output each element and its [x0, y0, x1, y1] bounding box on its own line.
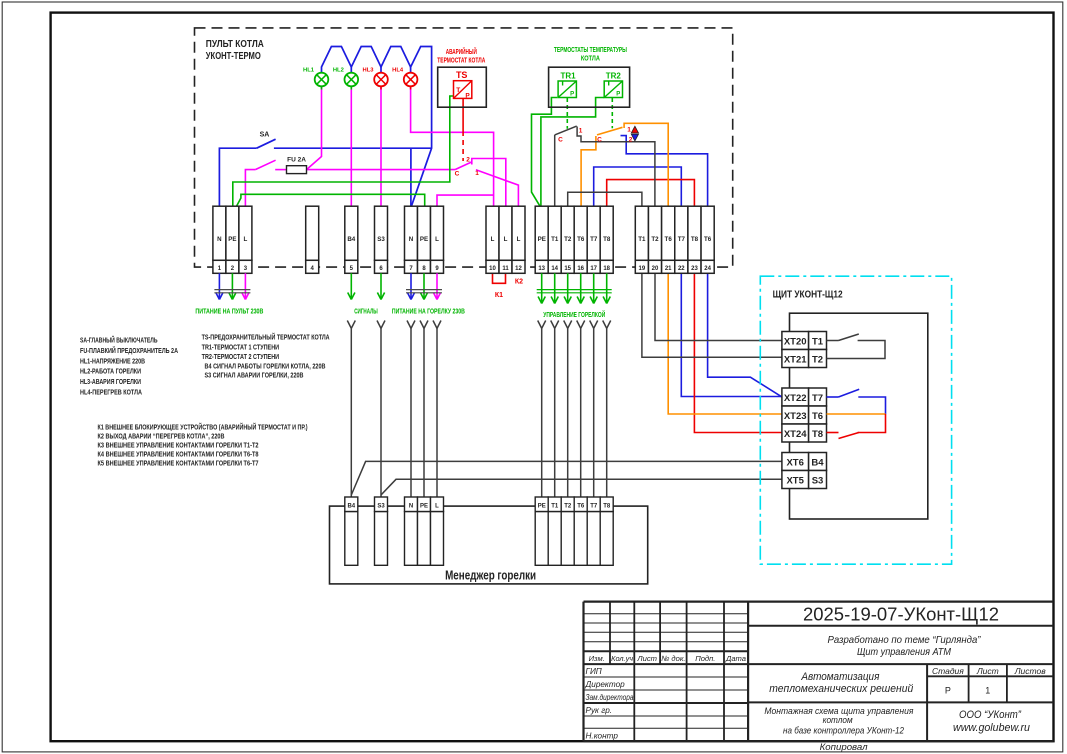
svg-text:21: 21: [665, 266, 672, 272]
svg-text:№ док.: № док.: [661, 654, 685, 663]
svg-text:Разработано по теме “Гирлянда”: Разработано по теме “Гирлянда”: [828, 634, 981, 646]
svg-text:ООО “УКонт”: ООО “УКонт”: [959, 709, 1022, 721]
svg-text:P: P: [616, 92, 620, 98]
svg-text:N: N: [409, 504, 413, 510]
svg-text:24: 24: [704, 266, 711, 272]
svg-text:котлом: котлом: [823, 715, 853, 725]
svg-text:на базе контроллера УКонт-12: на базе контроллера УКонт-12: [783, 726, 904, 736]
svg-text:20: 20: [652, 266, 659, 272]
svg-text:1: 1: [475, 170, 479, 177]
svg-text:PE: PE: [538, 236, 546, 243]
svg-text:T6: T6: [665, 236, 673, 243]
svg-text:T2: T2: [564, 236, 572, 243]
svg-text:B4: B4: [347, 504, 355, 510]
svg-text:FU-ПЛАВКИЙ ПРЕДОХРАНИТЕЛЬ 2А: FU-ПЛАВКИЙ ПРЕДОХРАНИТЕЛЬ 2А: [80, 346, 178, 355]
svg-text:T2: T2: [564, 504, 572, 510]
svg-text:Директор: Директор: [585, 680, 626, 689]
svg-text:P: P: [465, 92, 470, 99]
svg-text:2025-19-07-УКонт-Щ12: 2025-19-07-УКонт-Щ12: [803, 604, 999, 625]
svg-text:T: T: [456, 87, 460, 94]
svg-text:14: 14: [551, 266, 558, 272]
svg-text:S3: S3: [377, 504, 385, 510]
svg-text:www.golubew.ru: www.golubew.ru: [953, 722, 1030, 734]
svg-text:PE: PE: [420, 236, 428, 243]
svg-text:C: C: [597, 137, 602, 144]
svg-text:P: P: [570, 92, 574, 98]
svg-text:Стадия: Стадия: [932, 666, 964, 676]
svg-text:Лист: Лист: [976, 666, 999, 676]
svg-text:Листов: Листов: [1014, 666, 1047, 676]
svg-text:T7: T7: [590, 236, 598, 243]
svg-text:HL3: HL3: [363, 68, 375, 74]
svg-text:10: 10: [489, 266, 496, 272]
svg-text:1: 1: [627, 127, 631, 134]
svg-text:Автоматизация: Автоматизация: [800, 671, 879, 683]
svg-text:К2: К2: [515, 279, 523, 286]
svg-text:T8: T8: [812, 429, 823, 440]
svg-text:Зам.директора: Зам.директора: [586, 693, 634, 702]
svg-text:L: L: [491, 236, 495, 243]
svg-text:T1: T1: [812, 337, 824, 348]
svg-text:ПУЛЬТ КОТЛА: ПУЛЬТ КОТЛА: [206, 38, 264, 50]
svg-text:К3 ВНЕШНЕЕ УПРАВЛЕНИЕ КОНТАКТА: К3 ВНЕШНЕЕ УПРАВЛЕНИЕ КОНТАКТАМИ ГОРЕЛКИ…: [98, 440, 259, 449]
svg-text:1: 1: [579, 128, 583, 135]
svg-text:HL1: HL1: [303, 68, 315, 74]
svg-text:22: 22: [678, 266, 685, 272]
svg-text:Р: Р: [945, 686, 951, 696]
svg-text:Менеджер горелки: Менеджер горелки: [445, 569, 536, 583]
svg-text:SA: SA: [260, 132, 270, 139]
svg-text:B4 СИГНАЛ РАБОТЫ ГОРЕЛКИ КОТЛА: B4 СИГНАЛ РАБОТЫ ГОРЕЛКИ КОТЛА, 220В: [205, 362, 326, 371]
svg-text:TS-ПРЕДОХРАНИТЕЛЬНЫЙ ТЕРМОСТАТ: TS-ПРЕДОХРАНИТЕЛЬНЫЙ ТЕРМОСТАТ КОТЛА: [202, 333, 330, 342]
svg-text:N: N: [217, 236, 222, 243]
svg-text:Лист: Лист: [636, 654, 657, 663]
svg-text:23: 23: [691, 266, 698, 272]
svg-text:FU 2А: FU 2А: [287, 157, 306, 164]
svg-text:T7: T7: [678, 236, 686, 243]
svg-text:XT20: XT20: [784, 337, 807, 348]
svg-text:S3 СИГНАЛ АВАРИИ ГОРЕЛКИ, 220В: S3 СИГНАЛ АВАРИИ ГОРЕЛКИ, 220В: [205, 371, 304, 380]
svg-text:15: 15: [564, 266, 571, 272]
svg-text:L: L: [435, 504, 439, 510]
svg-text:N: N: [409, 236, 414, 243]
svg-text:B4: B4: [811, 458, 824, 469]
svg-text:T1: T1: [551, 504, 559, 510]
svg-text:ПИТАНИЕ НА ПУЛЬТ 230В: ПИТАНИЕ НА ПУЛЬТ 230В: [195, 309, 263, 316]
svg-text:Рук гр.: Рук гр.: [586, 706, 613, 715]
svg-text:К5 ВНЕШНЕЕ УПРАВЛЕНИЕ КОНТАКТА: К5 ВНЕШНЕЕ УПРАВЛЕНИЕ КОНТАКТАМИ ГОРЕЛКИ…: [98, 458, 259, 467]
svg-text:УПРАВЛЕНИЕ ГОРЕЛКОЙ: УПРАВЛЕНИЕ ГОРЕЛКОЙ: [543, 310, 605, 319]
svg-text:XT21: XT21: [784, 355, 807, 366]
svg-text:УКОНТ-ТЕРМО: УКОНТ-ТЕРМО: [206, 50, 261, 62]
svg-text:T2: T2: [812, 355, 823, 366]
svg-text:13: 13: [538, 266, 545, 272]
svg-text:АВАРИЙНЫЙ: АВАРИЙНЫЙ: [446, 47, 477, 56]
svg-text:Кол.уч: Кол.уч: [611, 654, 633, 663]
svg-text:HL2: HL2: [333, 68, 344, 74]
svg-text:2: 2: [629, 137, 633, 144]
svg-text:T8: T8: [603, 504, 611, 510]
svg-text:L: L: [435, 236, 439, 243]
svg-text:T8: T8: [691, 236, 699, 243]
svg-text:PE: PE: [420, 504, 428, 510]
svg-text:HL4: HL4: [392, 68, 404, 74]
svg-text:T6: T6: [577, 504, 585, 510]
svg-text:Н.контр: Н.контр: [586, 731, 619, 740]
svg-text:К1: К1: [495, 292, 503, 299]
svg-text:C: C: [558, 137, 563, 144]
svg-text:2: 2: [466, 157, 470, 164]
svg-text:L: L: [244, 236, 248, 243]
svg-text:SA-ГЛАВНЫЙ ВЫКЛЮЧАТЕЛЬ: SA-ГЛАВНЫЙ ВЫКЛЮЧАТЕЛЬ: [80, 336, 158, 345]
svg-text:T7: T7: [590, 504, 598, 510]
svg-text:TR1: TR1: [560, 72, 576, 81]
svg-text:16: 16: [577, 266, 584, 272]
svg-text:КОТЛА: КОТЛА: [581, 56, 600, 63]
svg-text:К2 ВЫХОД АВАРИИ “ПЕРЕГРЕВ КОТЛ: К2 ВЫХОД АВАРИИ “ПЕРЕГРЕВ КОТЛА”, 220В: [98, 431, 225, 440]
svg-text:T1: T1: [638, 236, 646, 243]
svg-text:T1: T1: [551, 236, 559, 243]
svg-text:К4 ВНЕШНЕЕ УПРАВЛЕНИЕ КОНТАКТА: К4 ВНЕШНЕЕ УПРАВЛЕНИЕ КОНТАКТАМИ ГОРЕЛКИ…: [98, 449, 259, 458]
svg-text:XT24: XT24: [784, 429, 807, 440]
svg-text:TR1-ТЕРМОСТАТ 1 СТУПЕНИ: TR1-ТЕРМОСТАТ 1 СТУПЕНИ: [202, 342, 280, 351]
svg-text:TS: TS: [456, 70, 468, 80]
svg-text:S3: S3: [377, 236, 385, 243]
svg-text:ГИП: ГИП: [586, 667, 602, 676]
svg-text:Изм.: Изм.: [589, 654, 605, 663]
svg-text:T6: T6: [812, 411, 823, 422]
svg-text:T2: T2: [651, 236, 659, 243]
svg-text:Щит управления АТМ: Щит управления АТМ: [857, 646, 951, 658]
svg-text:ЩИТ УКОНТ-Щ12: ЩИТ УКОНТ-Щ12: [773, 290, 843, 301]
svg-text:S3: S3: [812, 476, 824, 487]
svg-text:Подп.: Подп.: [695, 654, 715, 663]
svg-text:PE: PE: [538, 504, 546, 510]
svg-text:HL4-ПЕРЕГРЕВ КОТЛА: HL4-ПЕРЕГРЕВ КОТЛА: [80, 388, 142, 397]
svg-text:12: 12: [515, 266, 522, 272]
svg-text:К1 ВНЕШНЕЕ БЛОКИРУЮЩЕЕ УСТРОЙС: К1 ВНЕШНЕЕ БЛОКИРУЮЩЕЕ УСТРОЙСТВО (АВАРИ…: [98, 422, 308, 431]
svg-text:T6: T6: [704, 236, 712, 243]
svg-text:XT22: XT22: [784, 393, 807, 404]
svg-text:Копировал: Копировал: [820, 742, 868, 752]
svg-text:ПИТАНИЕ НА ГОРЕЛКУ 230В: ПИТАНИЕ НА ГОРЕЛКУ 230В: [392, 309, 465, 316]
svg-text:T7: T7: [812, 393, 823, 404]
svg-text:T6: T6: [577, 236, 585, 243]
svg-text:тепломеханических решений: тепломеханических решений: [769, 683, 913, 695]
svg-text:11: 11: [502, 266, 509, 272]
svg-text:17: 17: [590, 266, 597, 272]
svg-text:XT6: XT6: [786, 458, 803, 469]
svg-text:C: C: [455, 171, 460, 178]
svg-text:1: 1: [985, 686, 990, 696]
svg-text:19: 19: [639, 266, 646, 272]
svg-text:Дата: Дата: [725, 654, 746, 663]
svg-text:TR2: TR2: [606, 72, 622, 81]
svg-text:L: L: [517, 236, 521, 243]
svg-text:XT23: XT23: [784, 411, 807, 422]
svg-text:HL1-НАПРЯЖЕНИЕ 220В: HL1-НАПРЯЖЕНИЕ 220В: [80, 356, 145, 365]
svg-text:ТЕРМОСТАТЫ ТЕМПЕРАТУРЫ: ТЕРМОСТАТЫ ТЕМПЕРАТУРЫ: [554, 47, 627, 54]
svg-text:TR2-ТЕРМОСТАТ 2 СТУПЕНИ: TR2-ТЕРМОСТАТ 2 СТУПЕНИ: [202, 352, 280, 361]
svg-text:L: L: [504, 236, 508, 243]
svg-text:XT5: XT5: [786, 476, 804, 487]
svg-text:18: 18: [603, 266, 610, 272]
svg-text:СИГНАЛЫ: СИГНАЛЫ: [354, 309, 378, 316]
svg-text:HL2-РАБОТА ГОРЕЛКИ: HL2-РАБОТА ГОРЕЛКИ: [80, 367, 141, 376]
svg-text:PE: PE: [228, 236, 236, 243]
svg-text:HL3-АВАРИЯ ГОРЕЛКИ: HL3-АВАРИЯ ГОРЕЛКИ: [80, 377, 141, 386]
svg-text:T8: T8: [603, 236, 611, 243]
svg-text:B4: B4: [347, 236, 355, 243]
svg-text:ТЕРМОСТАТ КОТЛА: ТЕРМОСТАТ КОТЛА: [437, 58, 485, 65]
